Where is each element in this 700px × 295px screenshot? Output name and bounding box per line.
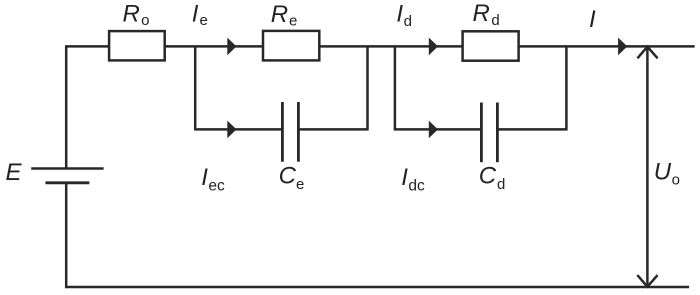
battery E long plate [31, 167, 103, 170]
svg-text:Ie: Ie [192, 0, 208, 29]
wire bottom horizontal [65, 286, 689, 289]
capacitor Ce left plate [281, 102, 284, 162]
resistor Rd box [463, 31, 519, 60]
wire top horizontal [66, 45, 695, 48]
voltage arrow Uo head top [637, 47, 657, 59]
current arrow Idc [429, 121, 438, 139]
wire vertical V2 [565, 46, 568, 130]
wire branch2 right [497, 128, 566, 131]
svg-text:Ro: Ro [123, 0, 150, 29]
current arrow Iec [227, 121, 236, 139]
battery E short plate [45, 181, 89, 184]
current arrow Id [429, 38, 438, 56]
current arrow I [618, 38, 627, 56]
node junction J2 vertical [394, 46, 397, 129]
svg-text:Uo: Uo [654, 159, 680, 189]
node junction J1 vertical [194, 46, 197, 129]
svg-text:Iec: Iec [201, 164, 225, 194]
wire branch2 left [394, 128, 482, 131]
svg-text:Cd: Cd [479, 163, 506, 193]
capacitor Cd right plate [496, 103, 499, 163]
wire branch1 right [298, 128, 367, 131]
capacitor Cd left plate [480, 103, 483, 163]
wire branch1 left [194, 128, 282, 131]
capacitor Ce right plate [297, 102, 300, 162]
resistor Re box [263, 31, 319, 61]
svg-text:Ce: Ce [279, 163, 305, 193]
svg-text:I: I [589, 6, 596, 33]
wire vertical V1 [366, 46, 369, 130]
wire left vertical upper [65, 45, 68, 167]
svg-text:Idc: Idc [401, 164, 425, 194]
current arrow Ie [227, 38, 236, 56]
svg-text:Rd: Rd [473, 0, 500, 29]
svg-text:Re: Re [271, 1, 298, 30]
svg-text:E: E [6, 159, 23, 186]
voltage arrow Uo line [646, 46, 649, 287]
voltage arrow Uo head bottom [637, 275, 657, 287]
wire left vertical lower [65, 184, 68, 288]
resistor Ro box [109, 31, 165, 60]
svg-text:Id: Id [396, 1, 412, 30]
